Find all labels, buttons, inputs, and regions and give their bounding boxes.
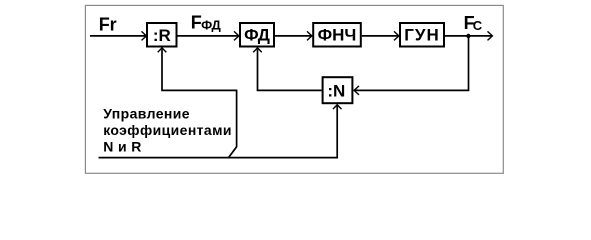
wire FNC to GUN bbox=[362, 31, 399, 40]
svg-text:ФНЧ: ФНЧ bbox=[318, 25, 357, 44]
svg-text::N: :N bbox=[327, 81, 345, 100]
svg-text:FC: FC bbox=[464, 13, 483, 33]
wire feedback from Fc to :N bbox=[354, 36, 468, 95]
divider :N bbox=[323, 77, 353, 103]
divider :R bbox=[147, 23, 177, 47]
svg-text:FФД: FФД bbox=[191, 12, 222, 32]
wire input to :R bbox=[90, 31, 146, 40]
svg-text:Управление: Управление bbox=[103, 105, 190, 121]
svg-text::R: :R bbox=[153, 26, 171, 45]
svg-text:ГУН: ГУН bbox=[404, 25, 440, 44]
low-pass filter FNC bbox=[313, 23, 361, 47]
svg-text:ФД: ФД bbox=[244, 25, 270, 44]
svg-text:N и R: N и R bbox=[103, 138, 142, 154]
control note outline with wire to :R bbox=[99, 48, 237, 158]
phase detector FD bbox=[240, 23, 274, 47]
wire FD to FNC bbox=[275, 31, 312, 40]
svg-text:Fr: Fr bbox=[99, 15, 117, 35]
wire control N bbox=[229, 105, 342, 158]
node Fc junction bbox=[466, 34, 470, 38]
VCO GUN bbox=[400, 23, 444, 47]
wire :N to FD bbox=[253, 48, 321, 91]
svg-text:коэффициентами: коэффициентами bbox=[103, 122, 232, 138]
wire :R to FD bbox=[178, 31, 239, 40]
wire GUN to output bbox=[445, 31, 492, 40]
